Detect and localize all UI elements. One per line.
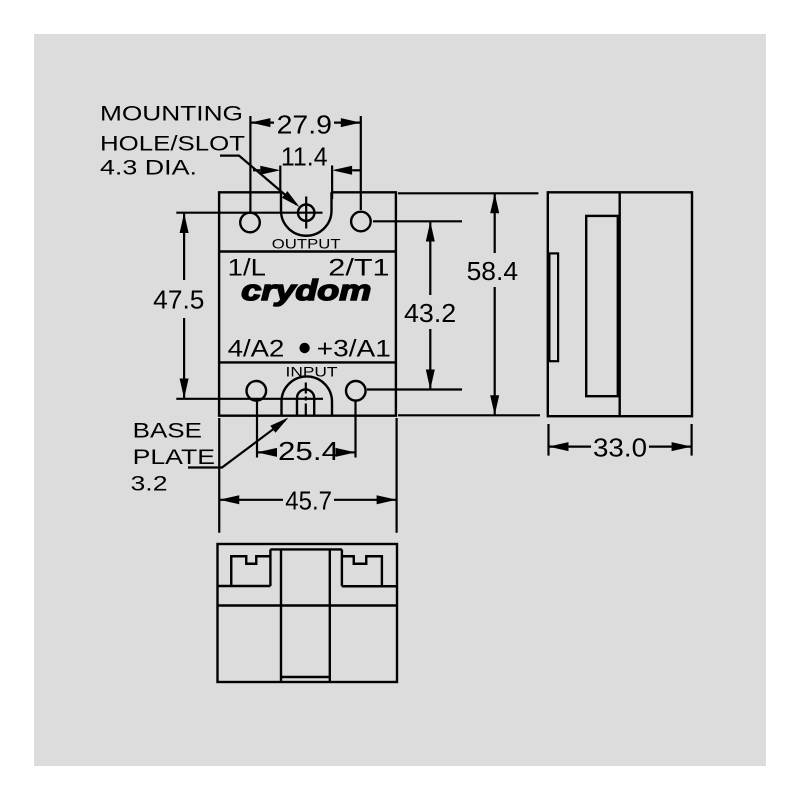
bottom view left shelf line	[218, 585, 271, 587]
bottom view center platform top	[270, 548, 342, 550]
side view body	[548, 192, 692, 416]
svg-text:3.2: 3.2	[131, 473, 168, 496]
dimension 33.0 below side view	[549, 424, 692, 463]
svg-text:58.4: 58.4	[467, 256, 518, 286]
svg-text:BASE: BASE	[133, 420, 202, 443]
leader line from BASE PLATE to bottom arch	[188, 418, 289, 468]
polarity dot	[299, 343, 309, 353]
svg-text:11.4: 11.4	[281, 141, 328, 171]
label MOUNTING HOLE/SLOT 4.3 DIA.	[100, 103, 245, 180]
svg-text:MOUNTING: MOUNTING	[100, 103, 243, 126]
dimension 47.5 left	[153, 213, 204, 399]
svg-text:47.5: 47.5	[153, 285, 204, 315]
svg-text:4.3 DIA.: 4.3 DIA.	[100, 157, 197, 180]
svg-text:HOLE/SLOT: HOLE/SLOT	[100, 133, 245, 156]
front inner line lower	[219, 361, 396, 363]
svg-text:PLATE: PLATE	[133, 446, 215, 469]
bottom view mid horizontal line	[218, 604, 398, 606]
bottom view right well left side	[341, 549, 343, 586]
svg-text:33.0: 33.0	[593, 433, 647, 463]
bottom slot centerline (dashed)	[305, 383, 307, 415]
extension line 47.5 bottom (through slot center)	[176, 398, 323, 400]
svg-text:25.4: 25.4	[278, 436, 339, 466]
bottom view left terminal well (castle)	[231, 556, 270, 586]
svg-text:crydom: crydom	[241, 275, 371, 307]
bottom view left well right side	[269, 549, 271, 586]
bottom arch (terminal boss)	[282, 376, 333, 415]
dimension 58.4 between views	[398, 193, 540, 415]
front bottom-right terminal hole	[346, 381, 366, 401]
leader line from MOUNTING label to slot hole	[220, 156, 300, 207]
bottom view right terminal well (castle)	[342, 556, 382, 586]
dimension 43.2 right of front view	[367, 221, 462, 389]
dimension 45.7 bottom	[219, 418, 396, 533]
svg-text:43.2: 43.2	[404, 298, 456, 328]
dimension 27.9 top	[250, 110, 360, 213]
dimension 25.4 bottom	[257, 436, 356, 466]
side view parting line	[619, 192, 621, 416]
side view label recess	[586, 216, 618, 396]
front top-right terminal hole	[351, 212, 371, 232]
extension line 47.5 top (through hole center)	[176, 212, 322, 214]
bottom view right shelf line	[342, 585, 397, 587]
svg-text:OUTPUT: OUTPUT	[272, 235, 341, 251]
bottom slot (inner U)	[297, 389, 314, 415]
bottom view center column right	[329, 549, 331, 682]
front bottom-left terminal hole	[246, 381, 266, 401]
label BASE PLATE 3.2	[131, 420, 216, 496]
top mounting slot (U cutout)	[281, 192, 332, 235]
top mounting hole with crosshair	[298, 197, 314, 229]
svg-text:27.9: 27.9	[277, 110, 332, 140]
dimension 11.4 top	[253, 141, 361, 199]
front top-left terminal hole	[240, 213, 260, 233]
svg-text:4/A2: 4/A2	[228, 336, 285, 363]
bottom view center bottom step	[281, 676, 330, 678]
bottom view outer outline	[218, 544, 398, 682]
side view left notch	[549, 253, 558, 361]
right terminal centerline stub	[354, 401, 356, 458]
front inner line upper	[219, 250, 396, 252]
svg-text:+3/A1: +3/A1	[317, 336, 391, 363]
left terminal centerline stub	[256, 401, 258, 458]
front view body outline	[219, 192, 396, 415]
bottom view center column left	[280, 549, 282, 682]
svg-text:45.7: 45.7	[285, 485, 332, 515]
